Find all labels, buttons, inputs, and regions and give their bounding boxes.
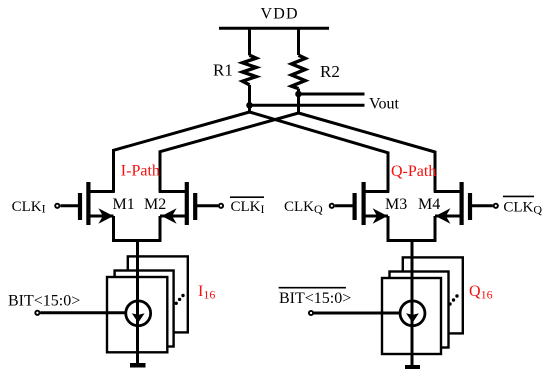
svg-text:M3: M3 [385,196,407,213]
svg-text:M4: M4 [418,196,440,213]
svg-text:I-Path: I-Path [121,162,160,179]
svg-text:BIT<15:0>: BIT<15:0> [279,290,351,307]
svg-text:Q-Path: Q-Path [391,163,436,180]
svg-text:BIT<15:0>: BIT<15:0> [8,293,80,310]
svg-text:CLKQ: CLKQ [284,199,323,216]
svg-text:Vout: Vout [369,96,399,113]
svg-text:R2: R2 [320,62,340,81]
svg-text:M1: M1 [113,196,135,213]
svg-text:VDD: VDD [261,6,299,23]
svg-text:M2: M2 [144,196,166,213]
svg-text:CLKQ: CLKQ [503,200,542,217]
svg-text:CLKI: CLKI [12,199,46,216]
svg-text:R1: R1 [213,61,233,80]
svg-text:CLKI: CLKI [231,199,265,216]
